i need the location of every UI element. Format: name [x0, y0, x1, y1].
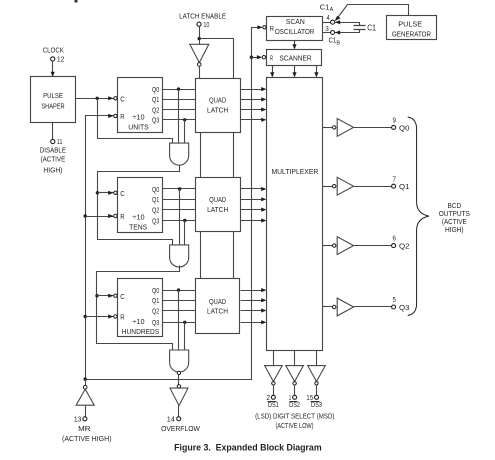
- node DS1 label: [268, 400, 279, 409]
- junction units Q3 tap: [183, 118, 186, 121]
- svg-text:B: B: [336, 41, 340, 47]
- buffer B3: [337, 237, 353, 255]
- buffer B2: [337, 177, 353, 195]
- bubble scanner R input: [262, 56, 265, 59]
- junction tens Q0 tap: [178, 187, 181, 190]
- wire inverter N1 to pin: [273, 385, 275, 396]
- node CLOCK label: [43, 45, 64, 54]
- wire G2 output carry: [97, 266, 180, 351]
- svg-text:Q1: Q1: [152, 95, 159, 104]
- wire latch1 to latch2 enable links: [201, 133, 234, 178]
- pin number 4: [327, 13, 330, 22]
- junction hundreds Q0 tap: [177, 288, 180, 291]
- wire carry2 to hundreds C input: [97, 294, 114, 298]
- svg-text:Q0: Q0: [152, 85, 159, 94]
- svg-text:R: R: [120, 313, 125, 322]
- svg-text:R: R: [270, 53, 274, 62]
- junction scanner reset tap: [250, 56, 253, 59]
- svg-text:R: R: [270, 24, 275, 33]
- node DS2 label: [289, 400, 300, 409]
- pin number 6: [393, 234, 396, 243]
- bubble tens C input: [114, 191, 117, 194]
- svg-text:4: 4: [327, 13, 330, 22]
- svg-text:C1: C1: [320, 3, 330, 12]
- wire latch enable to inverter: [199, 27, 201, 45]
- quad latch L3: [196, 279, 240, 334]
- wire buffer B2 to pin: [354, 186, 392, 188]
- quad latch L2: [196, 178, 241, 232]
- inverter latch enable: [190, 44, 209, 62]
- wire carry1 to tens C input: [98, 191, 114, 195]
- wire multiplexer to inverter N3: [316, 351, 318, 366]
- bubble hundreds C input: [114, 294, 117, 297]
- svg-text:C: C: [120, 292, 125, 301]
- wire buffer B1 to pin: [354, 127, 392, 129]
- node digit select caption: [255, 412, 335, 431]
- junction tens Q3 tap: [183, 219, 186, 222]
- bubble oscillator R input: [263, 26, 266, 29]
- wire multiplexer to inverter N2: [294, 351, 296, 366]
- terminal Q3 pin 5: [392, 305, 396, 309]
- pin number 9: [393, 116, 396, 125]
- terminal CLOCK pin 12: [51, 57, 55, 61]
- counter U2 divide-by-10 TENS: [118, 178, 163, 233]
- wire inverter output to quad latch 1: [199, 67, 201, 79]
- inverter N1 digit select: [265, 366, 283, 382]
- wire pulse generator to C1A: [335, 5, 409, 22]
- svg-text:7: 7: [393, 174, 396, 183]
- svg-text:Q1: Q1: [399, 182, 410, 191]
- terminal C1A pin 4: [331, 20, 335, 24]
- figure caption: [174, 443, 322, 453]
- svg-text:LATCH: LATCH: [207, 105, 228, 114]
- svg-text:Q1: Q1: [152, 296, 159, 305]
- svg-text:Q2: Q2: [399, 242, 410, 251]
- svg-text:SHAPER: SHAPER: [41, 102, 65, 111]
- svg-text:A: A: [330, 7, 334, 13]
- wire C1 top lead: [335, 20, 360, 25]
- terminal LATCH ENABLE pin 10: [197, 22, 201, 26]
- brace BCD outputs: [408, 117, 429, 316]
- svg-text:(LSD) DIGIT SELECT (MSD): (LSD) DIGIT SELECT (MSD): [255, 412, 335, 421]
- svg-text:CLOCK: CLOCK: [43, 45, 64, 54]
- terminal DS1 pin 2: [271, 395, 275, 399]
- bubble tens R input: [114, 214, 117, 217]
- pin number 2: [266, 393, 270, 402]
- pin number 15: [306, 393, 313, 402]
- node BCD OUTPUTS label: [439, 201, 470, 234]
- svg-text:SCAN: SCAN: [286, 17, 305, 26]
- buffer MR input: [76, 389, 94, 405]
- inverter N3 digit select: [308, 366, 326, 382]
- junction carry2 to hundreds C: [95, 294, 98, 297]
- svg-text:DISABLE: DISABLE: [40, 146, 66, 155]
- terminal Q2 pin 6: [392, 244, 396, 248]
- svg-text:Q0: Q0: [399, 123, 410, 132]
- svg-text:(ACTIVE: (ACTIVE: [41, 155, 66, 164]
- svg-text:÷10: ÷10: [132, 112, 144, 121]
- wire hundreds Q0 tap to AND gate: [178, 291, 180, 351]
- terminal C1B pin 3: [331, 31, 335, 35]
- counter U3 divide-by-10 HUNDREDS: [118, 279, 163, 337]
- wire oscillator to scanner: [292, 41, 296, 50]
- wire multiplexer to inverter N1: [273, 351, 275, 366]
- svg-text:Q3: Q3: [152, 318, 159, 327]
- wire units Q0-Q3 to quad latch: [163, 90, 196, 120]
- pin number 13: [74, 414, 82, 423]
- svg-text:Q3: Q3: [399, 303, 410, 312]
- pin number 5: [393, 295, 396, 304]
- wire tens Q0-Q3 to quad latch: [163, 189, 196, 221]
- pin number 7: [393, 174, 396, 183]
- wire tens Q3 tap to AND gate: [184, 221, 186, 245]
- svg-text:Q3: Q3: [152, 116, 159, 125]
- multiplexer block: [267, 78, 323, 351]
- wire hundreds latch outputs to multiplexer: [241, 288, 267, 324]
- wire multiplexer to buffer B3: [323, 245, 333, 247]
- buffer B1: [337, 119, 353, 137]
- stray ink fragment top edge: [75, 0, 78, 3]
- node Q0 label: [399, 123, 410, 132]
- wire multiplexer to buffer B2: [323, 186, 333, 188]
- node MR active high label: [62, 434, 112, 443]
- wire clock feed to AND gate G1: [98, 99, 173, 144]
- AND gate G2 carry tens: [170, 245, 189, 267]
- svg-text:HIGH): HIGH): [445, 225, 464, 234]
- NAND gate G3 overflow: [170, 350, 189, 372]
- svg-text:R: R: [120, 212, 125, 221]
- bubble buffer B4 input: [333, 305, 336, 308]
- bubble buffer B2 input: [333, 185, 336, 188]
- bubble latch enable inverter output: [198, 63, 202, 67]
- bubble units R input: [114, 114, 117, 117]
- svg-text:3: 3: [325, 24, 329, 33]
- svg-text:QUAD: QUAD: [209, 195, 227, 204]
- junction units Q0 tap: [177, 87, 180, 90]
- wire clock to pulse shaper: [51, 61, 55, 78]
- svg-text:5: 5: [393, 295, 396, 304]
- terminal MR pin 13: [83, 417, 87, 421]
- node Q2 label: [399, 242, 410, 251]
- scan oscillator block: [267, 17, 323, 41]
- wire multiplexer to buffer B1: [323, 127, 333, 129]
- wire tens latch outputs to multiplexer: [241, 187, 267, 223]
- svg-text:PULSE: PULSE: [43, 91, 63, 100]
- svg-text:12: 12: [57, 54, 65, 63]
- svg-text:14: 14: [167, 414, 175, 423]
- wire oscillator pin 4 stub: [323, 22, 331, 24]
- svg-text:UNITS: UNITS: [128, 122, 148, 131]
- buffer OVERFLOW: [170, 388, 188, 406]
- terminal DISABLE pin 11: [51, 139, 55, 143]
- pin number 14: [167, 414, 175, 423]
- wire latch2 to latch3 enable links: [201, 232, 234, 279]
- value label C1: [367, 23, 376, 32]
- svg-text:Q0: Q0: [152, 185, 159, 194]
- wire tens Q0 tap to AND gate: [179, 189, 181, 245]
- svg-text:10: 10: [203, 20, 209, 29]
- AND gate G1 carry units: [170, 143, 189, 165]
- svg-text:C: C: [120, 189, 125, 198]
- wire C1 bottom lead: [335, 30, 360, 35]
- pin number 11: [57, 137, 63, 146]
- bubble buffer B3 input: [333, 244, 336, 247]
- wire units latch outputs to multiplexer: [241, 87, 267, 122]
- junction clock node: [96, 97, 99, 100]
- svg-text:QUAD: QUAD: [209, 96, 227, 105]
- capacitor C1: [354, 26, 366, 30]
- junction MR to tens R: [84, 214, 87, 217]
- wire units Q0 tap to AND gate: [178, 90, 180, 144]
- svg-text:Figure 3. Expanded Block Diag: Figure 3. Expanded Block Diagram: [174, 443, 322, 453]
- bubble overflow buffer input: [177, 385, 180, 388]
- wire inverter N2 to pin: [294, 385, 296, 396]
- wire scanner to multiplexer selects: [270, 66, 318, 78]
- svg-text:SCANNER: SCANNER: [279, 53, 312, 62]
- node MR label: [78, 424, 91, 433]
- svg-text:(ACTIVE HIGH): (ACTIVE HIGH): [62, 434, 112, 443]
- wire pulse shaper output to units clock: [76, 96, 114, 100]
- wire MR to hundreds R input: [86, 314, 114, 318]
- wire G1 output carry: [98, 166, 180, 246]
- svg-text:OSCILLATOR: OSCILLATOR: [275, 27, 315, 36]
- wire overflow buffer to pin: [178, 406, 180, 417]
- svg-text:HIGH): HIGH): [43, 165, 62, 174]
- svg-text:13: 13: [74, 414, 82, 423]
- svg-text:9: 9: [393, 116, 396, 125]
- bubble inverter N2 output: [293, 382, 296, 385]
- wire MR to tens R input: [86, 214, 114, 218]
- node LATCH ENABLE label: [179, 11, 226, 20]
- node C1A label: [320, 3, 334, 13]
- pulse generator block: [387, 16, 437, 40]
- svg-text:LATCH: LATCH: [207, 205, 228, 214]
- wire scanner reset tap: [252, 55, 263, 59]
- bubble MR buffer output: [83, 385, 87, 389]
- svg-text:LATCH: LATCH: [207, 306, 228, 315]
- node DISABLE label: [40, 146, 66, 175]
- buffer B4: [337, 298, 353, 316]
- wire hundreds Q0-Q3 to quad latch: [163, 291, 196, 323]
- wire hundreds Q3 tap to AND gate: [184, 323, 186, 351]
- junction latch enable node: [198, 37, 201, 40]
- node DS3 label: [311, 400, 322, 409]
- svg-text:MULTIPLEXER: MULTIPLEXER: [271, 167, 318, 176]
- svg-text:QUAD: QUAD: [209, 297, 227, 306]
- node OVERFLOW label: [161, 424, 201, 433]
- wire MR reset bus vertical: [86, 114, 114, 380]
- svg-text:GENERATOR: GENERATOR: [392, 30, 432, 39]
- svg-text:C1: C1: [367, 23, 376, 32]
- node Q3 label: [399, 303, 410, 312]
- svg-text:C1: C1: [329, 36, 337, 45]
- inverter N2 digit select: [286, 366, 304, 382]
- node Q1 label: [399, 182, 410, 191]
- bubble units C input: [114, 97, 117, 100]
- pulse shaper block: [31, 77, 76, 123]
- wire G3 to overflow buffer: [178, 375, 180, 385]
- bubble hundreds R input: [114, 315, 117, 318]
- junction MR to hundreds R: [84, 315, 87, 318]
- svg-text:MR: MR: [78, 424, 91, 433]
- pin number 10: [203, 20, 209, 29]
- bubble G3 output: [177, 371, 180, 374]
- terminal OVERFLOW pin 14: [177, 417, 181, 421]
- wire inverter N3 to pin: [316, 385, 318, 396]
- wire oscillator pin 3 stub: [323, 32, 331, 34]
- terminal DS2 pin 1: [293, 395, 297, 399]
- scanner block: [267, 50, 322, 66]
- svg-text:TENS: TENS: [129, 222, 147, 231]
- wire multiplexer to buffer B4: [323, 306, 333, 308]
- counter U1 divide-by-10 UNITS: [118, 78, 163, 133]
- bubble inverter N3 output: [315, 382, 318, 385]
- pin number 1: [289, 393, 291, 402]
- pin number 3: [325, 24, 329, 33]
- svg-text:OVERFLOW: OVERFLOW: [161, 424, 201, 433]
- svg-text:Q2: Q2: [152, 105, 159, 114]
- junction hundreds Q3 tap: [183, 321, 186, 324]
- quad latch L1: [196, 79, 241, 133]
- junction carry1 to tens C: [96, 191, 99, 194]
- junction MR bottom node: [84, 377, 87, 380]
- wire MR buffer output to reset bus: [85, 380, 87, 386]
- svg-text:PULSE: PULSE: [398, 20, 422, 29]
- svg-text:Q2: Q2: [152, 306, 159, 315]
- terminal DS3 pin 15: [315, 395, 319, 399]
- svg-text:C: C: [120, 95, 125, 104]
- wire pulse shaper to disable pin: [52, 123, 54, 140]
- wire MR to oscillator and scanner resets: [86, 25, 263, 379]
- wire MR buffer to pin: [85, 406, 87, 417]
- wire units Q3 tap to AND gate: [184, 120, 186, 144]
- wire buffer B3 to pin: [354, 245, 392, 247]
- svg-text:÷10: ÷10: [132, 212, 144, 221]
- node C1B label: [329, 36, 341, 47]
- svg-text:HUNDREDS: HUNDREDS: [122, 327, 160, 336]
- svg-text:Q3: Q3: [152, 216, 159, 225]
- svg-text:Q1: Q1: [152, 195, 159, 204]
- wire latch enable bypass to latch 1: [200, 39, 234, 79]
- svg-text:Q2: Q2: [152, 205, 159, 214]
- svg-text:Q0: Q0: [152, 286, 159, 295]
- svg-text:R: R: [120, 112, 125, 121]
- bubble buffer B1 input: [333, 126, 336, 129]
- terminal Q1 pin 7: [392, 184, 396, 188]
- wire buffer B4 to pin: [354, 306, 392, 308]
- terminal Q0 pin 9: [392, 125, 396, 129]
- bubble inverter N1 output: [272, 382, 275, 385]
- svg-text:(ACTIVE LOW): (ACTIVE LOW): [275, 421, 313, 430]
- pin number 12: [57, 54, 65, 63]
- svg-text:÷10: ÷10: [132, 317, 144, 326]
- svg-text:6: 6: [393, 234, 396, 243]
